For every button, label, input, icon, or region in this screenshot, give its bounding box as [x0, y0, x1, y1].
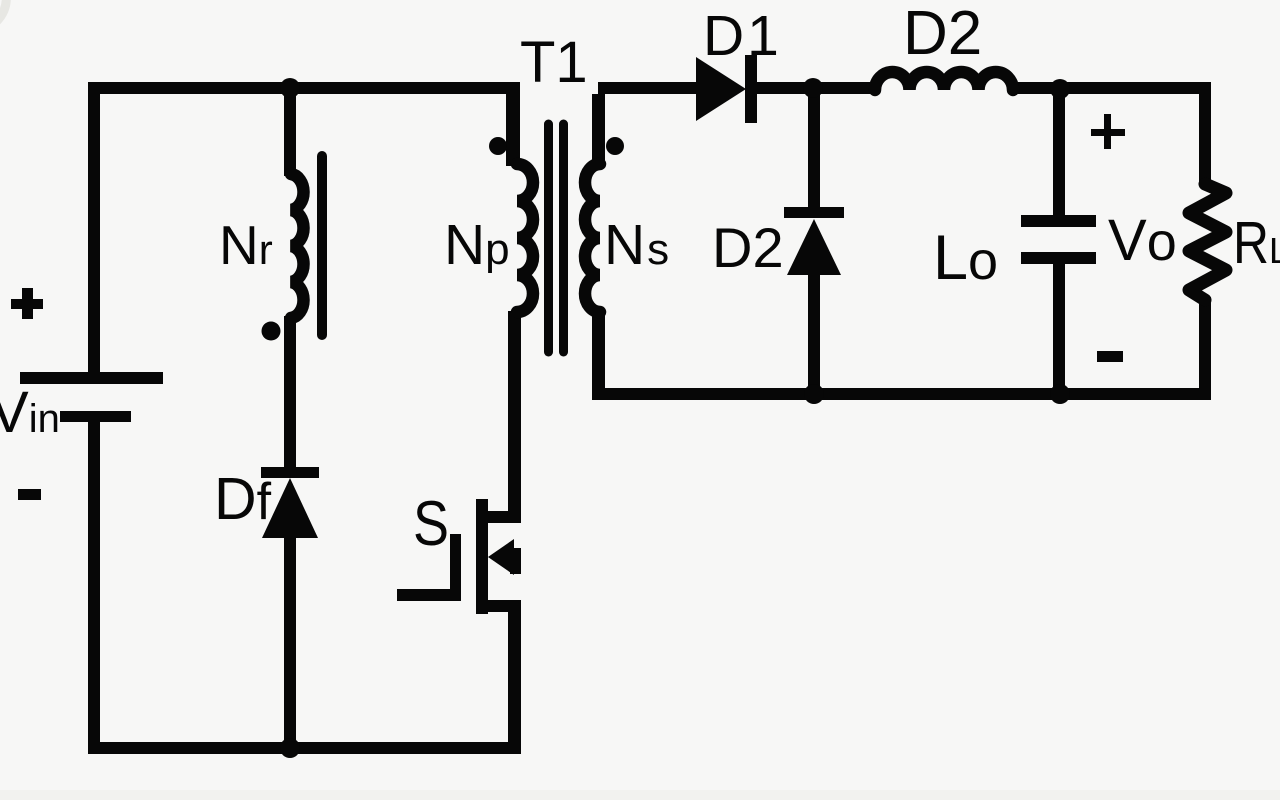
svg-text:L: L: [1269, 230, 1280, 271]
svg-text:Lo: Lo: [933, 223, 998, 293]
svg-text:R: R: [1233, 210, 1269, 276]
svg-text:Vo: Vo: [1108, 208, 1177, 273]
svg-text:S: S: [413, 489, 449, 559]
svg-text:D2: D2: [712, 216, 784, 279]
svg-text:Df: Df: [214, 466, 272, 532]
svg-text:T1: T1: [520, 30, 588, 95]
svg-text:D1: D1: [703, 4, 782, 68]
svg-text:D2: D2: [903, 0, 982, 68]
